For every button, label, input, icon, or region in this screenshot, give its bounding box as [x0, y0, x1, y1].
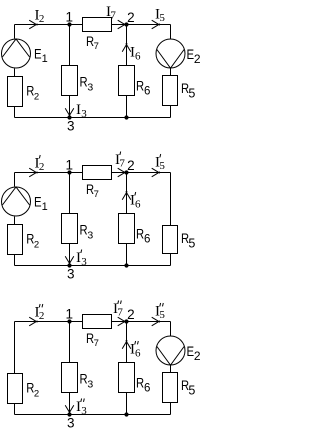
- label I6: [130, 45, 141, 63]
- node 3 junction dot: [67, 115, 71, 119]
- svg-text:7: 7: [94, 338, 99, 349]
- label E1: [34, 46, 48, 65]
- current arrow I5: [152, 168, 160, 177]
- wire: R5 to bottom rail: [170, 106, 172, 118]
- wire: E1 to R2: [14, 217, 16, 225]
- resistor R7: [83, 18, 112, 32]
- current arrow I5: [152, 20, 160, 29]
- wire: node1 to R3: [69, 173, 71, 214]
- resistor R3: [62, 363, 78, 393]
- label I2: [35, 8, 45, 26]
- EMF source E2: [156, 336, 185, 365]
- wire: right branch top stub: [170, 322, 172, 336]
- wire: R3 to bottom rail: [69, 244, 71, 266]
- svg-text:5: 5: [188, 383, 195, 397]
- resistor R6: [119, 363, 135, 393]
- label I7: [113, 301, 123, 319]
- svg-text:5: 5: [159, 160, 165, 172]
- wire: R5 to bottom rail: [170, 254, 172, 266]
- wire: E1 to R2: [14, 69, 16, 77]
- wire: bottom rail (node 3): [15, 117, 171, 119]
- current arrow I7: [118, 168, 126, 177]
- label R7: [86, 331, 99, 349]
- wire: R2 to bottom rail: [14, 107, 16, 118]
- label I5: [155, 303, 165, 321]
- EMF source E1: [2, 187, 31, 216]
- wire: R5 to bottom rail: [170, 403, 172, 415]
- svg-text:3: 3: [87, 229, 93, 241]
- label R3: [80, 75, 94, 94]
- label E1: [34, 194, 48, 213]
- svg-text:3: 3: [87, 81, 93, 93]
- svg-text:6: 6: [135, 199, 141, 211]
- resistor R6: [119, 214, 135, 244]
- label I6: [130, 341, 141, 360]
- wire: node2 to R6: [126, 173, 128, 214]
- svg-text:6: 6: [135, 51, 141, 63]
- svg-text:3: 3: [81, 405, 87, 417]
- svg-text:3: 3: [87, 378, 93, 390]
- resistor R7: [83, 315, 112, 329]
- node 1 junction dot: [67, 22, 71, 26]
- label R2: [26, 84, 39, 103]
- svg-text:E: E: [34, 46, 42, 61]
- wire: R6 to bottom rail: [126, 96, 128, 118]
- label R6: [136, 79, 150, 98]
- wire: top rail right segment (node 2 to right corner): [112, 24, 171, 26]
- label R5: [181, 231, 195, 251]
- svg-text:2: 2: [39, 161, 45, 173]
- resistor R6: [119, 66, 135, 96]
- svg-text:7: 7: [110, 10, 116, 22]
- resistor R7: [83, 166, 112, 180]
- wire: R6 to bottom rail: [126, 393, 128, 415]
- junction dot R6/bottom rail: [124, 412, 128, 416]
- wire: E2 to R5: [170, 69, 172, 76]
- label I2: [35, 304, 45, 322]
- current arrow I3 (down): [65, 256, 74, 264]
- current arrow I3 (down): [65, 108, 74, 116]
- EMF source E1: [2, 39, 31, 68]
- svg-text:7: 7: [94, 189, 99, 200]
- svg-text:3: 3: [81, 108, 87, 120]
- svg-text:7: 7: [117, 307, 123, 319]
- label I6: [130, 192, 141, 211]
- label E2: [187, 344, 201, 363]
- wire: top rail left segment (node 1 area): [15, 321, 83, 323]
- label I7: [106, 4, 116, 22]
- current arrow I2: [29, 317, 37, 326]
- label R2: [26, 381, 39, 400]
- wire: top rail right segment (node 2 to right corner): [112, 172, 171, 174]
- wire: right branch upper segment: [170, 173, 172, 226]
- resistor R2: [8, 77, 23, 107]
- resistor R2: [8, 374, 23, 404]
- label R7: [86, 34, 99, 52]
- svg-text:5: 5: [159, 12, 165, 24]
- svg-text:1: 1: [66, 307, 74, 322]
- svg-text:3: 3: [67, 416, 75, 431]
- wire: top rail left segment (node 1 area): [15, 172, 83, 174]
- current arrow I7: [118, 20, 126, 29]
- label I2: [35, 155, 45, 173]
- label R6: [136, 376, 150, 395]
- wire: right branch top stub: [170, 25, 172, 39]
- current arrow I2: [29, 20, 37, 29]
- node 1 junction dot: [67, 319, 71, 323]
- svg-text:2: 2: [127, 158, 135, 173]
- label R3: [80, 223, 94, 242]
- current arrow I2: [29, 168, 37, 177]
- node 2 junction dot: [124, 22, 128, 26]
- svg-text:1: 1: [66, 10, 74, 25]
- svg-text:6: 6: [144, 234, 150, 246]
- svg-text:2: 2: [34, 239, 39, 250]
- current arrow I6 (up): [122, 43, 131, 51]
- current arrow I3 (down): [65, 405, 74, 413]
- label R7: [86, 182, 99, 200]
- svg-text:2: 2: [194, 349, 201, 363]
- label I3: [76, 399, 87, 418]
- svg-text:6: 6: [144, 383, 150, 395]
- node 2 junction dot: [124, 319, 128, 323]
- svg-text:2: 2: [127, 307, 135, 322]
- node 3 junction dot: [67, 263, 71, 267]
- junction dot R6/bottom rail: [124, 115, 128, 119]
- wire: bottom rail (node 3): [15, 414, 171, 416]
- resistor R5: [163, 226, 178, 254]
- current arrow I6 (up): [122, 191, 131, 199]
- current arrow I6 (up): [122, 340, 131, 348]
- label I3: [76, 102, 87, 120]
- svg-text:5: 5: [159, 309, 165, 321]
- label R3: [80, 372, 94, 391]
- wire: left branch upper segment: [14, 322, 16, 374]
- resistor R5: [163, 373, 178, 403]
- wire: R2 to bottom rail: [14, 255, 16, 266]
- wire: top rail left segment (node 1 area): [15, 24, 83, 26]
- svg-text:7: 7: [119, 158, 125, 170]
- wire: node2 to R6: [126, 322, 128, 363]
- label R5: [181, 81, 195, 101]
- EMF source E2: [156, 39, 185, 68]
- label R6: [136, 227, 150, 246]
- node 2 junction dot: [124, 170, 128, 174]
- label I5: [155, 7, 165, 25]
- label E2: [187, 47, 201, 66]
- node 3 junction dot: [67, 412, 71, 416]
- svg-text:2: 2: [194, 52, 201, 66]
- current arrow I5: [152, 317, 160, 326]
- wire: node2 to R6: [126, 25, 128, 66]
- svg-text:3: 3: [67, 119, 75, 134]
- svg-text:E: E: [34, 194, 42, 209]
- svg-text:2: 2: [39, 13, 45, 25]
- svg-text:2: 2: [34, 388, 39, 399]
- label I3: [76, 250, 87, 269]
- svg-text:2: 2: [39, 310, 45, 322]
- junction dot R6/bottom rail: [124, 263, 128, 267]
- wire: R6 to bottom rail: [126, 244, 128, 266]
- wire: left branch top stub: [14, 173, 16, 187]
- wire: R2 to bottom rail: [14, 404, 16, 415]
- wire: left branch top stub: [14, 25, 16, 39]
- svg-text:2: 2: [34, 91, 39, 102]
- wire: E2 to R5: [170, 366, 172, 373]
- svg-text:1: 1: [42, 53, 48, 65]
- label I7: [115, 152, 125, 170]
- svg-text:2: 2: [127, 10, 135, 25]
- wire: node1 to R3: [69, 25, 71, 66]
- svg-text:3: 3: [67, 267, 75, 282]
- wire: R3 to bottom rail: [69, 393, 71, 415]
- wire: top rail right segment (node 2 to right corner): [112, 321, 171, 323]
- svg-text:6: 6: [144, 86, 150, 98]
- resistor R3: [62, 66, 78, 96]
- current arrow I7: [118, 317, 126, 326]
- wire: bottom rail (node 3): [15, 265, 171, 267]
- wire: node1 to R3: [69, 322, 71, 363]
- label I5: [155, 154, 165, 172]
- svg-text:6: 6: [135, 348, 141, 360]
- svg-text:5: 5: [188, 86, 195, 100]
- node 1 junction dot: [67, 170, 71, 174]
- svg-text:1: 1: [42, 201, 48, 213]
- resistor R5: [163, 76, 178, 106]
- svg-text:7: 7: [94, 41, 99, 52]
- label R5: [181, 378, 195, 398]
- label R2: [26, 232, 39, 251]
- resistor R3: [62, 214, 78, 244]
- wire: R3 to bottom rail: [69, 96, 71, 118]
- svg-text:1: 1: [66, 158, 74, 173]
- svg-text:3: 3: [81, 256, 87, 268]
- resistor R2: [8, 225, 23, 255]
- svg-text:5: 5: [188, 236, 195, 250]
